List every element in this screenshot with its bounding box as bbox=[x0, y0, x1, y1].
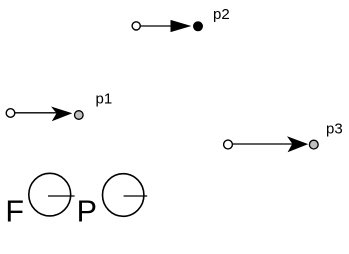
wire p2 arrow shaft bbox=[141, 25, 172, 27]
wire p1 arrow shaft bbox=[15, 112, 58, 114]
p3 arrowhead (stealth) bbox=[287, 136, 308, 152]
p1 arrowhead (stealth) bbox=[51, 107, 72, 122]
p2 arrowhead (solid triangle) bbox=[171, 20, 192, 32]
node p3 end dot (gray) bbox=[309, 140, 318, 149]
node p1 start circle bbox=[6, 109, 15, 118]
node p3 start circle bbox=[224, 140, 233, 149]
circle P (lens circle) bbox=[103, 174, 144, 217]
svg-text:p2: p2 bbox=[213, 6, 230, 23]
wire radius line in circle P bbox=[124, 195, 148, 197]
node p2 end dot (black) bbox=[193, 21, 203, 31]
svg-text:p1: p1 bbox=[96, 90, 113, 107]
circle F (lens circle) bbox=[29, 173, 71, 216]
svg-text:P: P bbox=[77, 194, 97, 228]
svg-text:p3: p3 bbox=[326, 121, 343, 138]
node p2 start circle bbox=[132, 22, 140, 30]
node p1 end dot (gray) bbox=[75, 111, 84, 120]
wire radius line in circle F bbox=[48, 195, 75, 197]
wire p3 arrow shaft bbox=[233, 143, 294, 145]
svg-text:F: F bbox=[5, 194, 24, 228]
